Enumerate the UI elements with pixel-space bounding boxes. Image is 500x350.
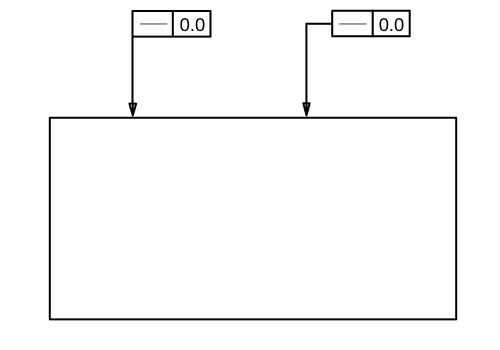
FCF2 cell divider — [372, 10, 374, 38]
part outline rectangle — [50, 118, 456, 320]
FCF1 cell divider — [172, 10, 174, 38]
straightness symbol in FCF1 — [140, 23, 167, 25]
straightness symbol in FCF2 — [339, 23, 367, 25]
svg-text:0.0: 0.0 — [379, 14, 405, 35]
feature control frame FCF2 outer box — [332, 11, 410, 37]
leader wire 1 (vertical from FCF1 bottom-left corner to part top edge) — [132, 37, 134, 115]
feature control frame FCF1 outer box — [133, 11, 211, 37]
svg-text:0.0: 0.0 — [180, 14, 206, 35]
arrowhead 2 (open arrow at part top edge) — [303, 103, 309, 115]
arrowhead 1 (open arrow at part top edge) — [129, 104, 136, 116]
leader wire 2 (from FCF2 left side, bends down to part top edge) — [306, 24, 332, 114]
